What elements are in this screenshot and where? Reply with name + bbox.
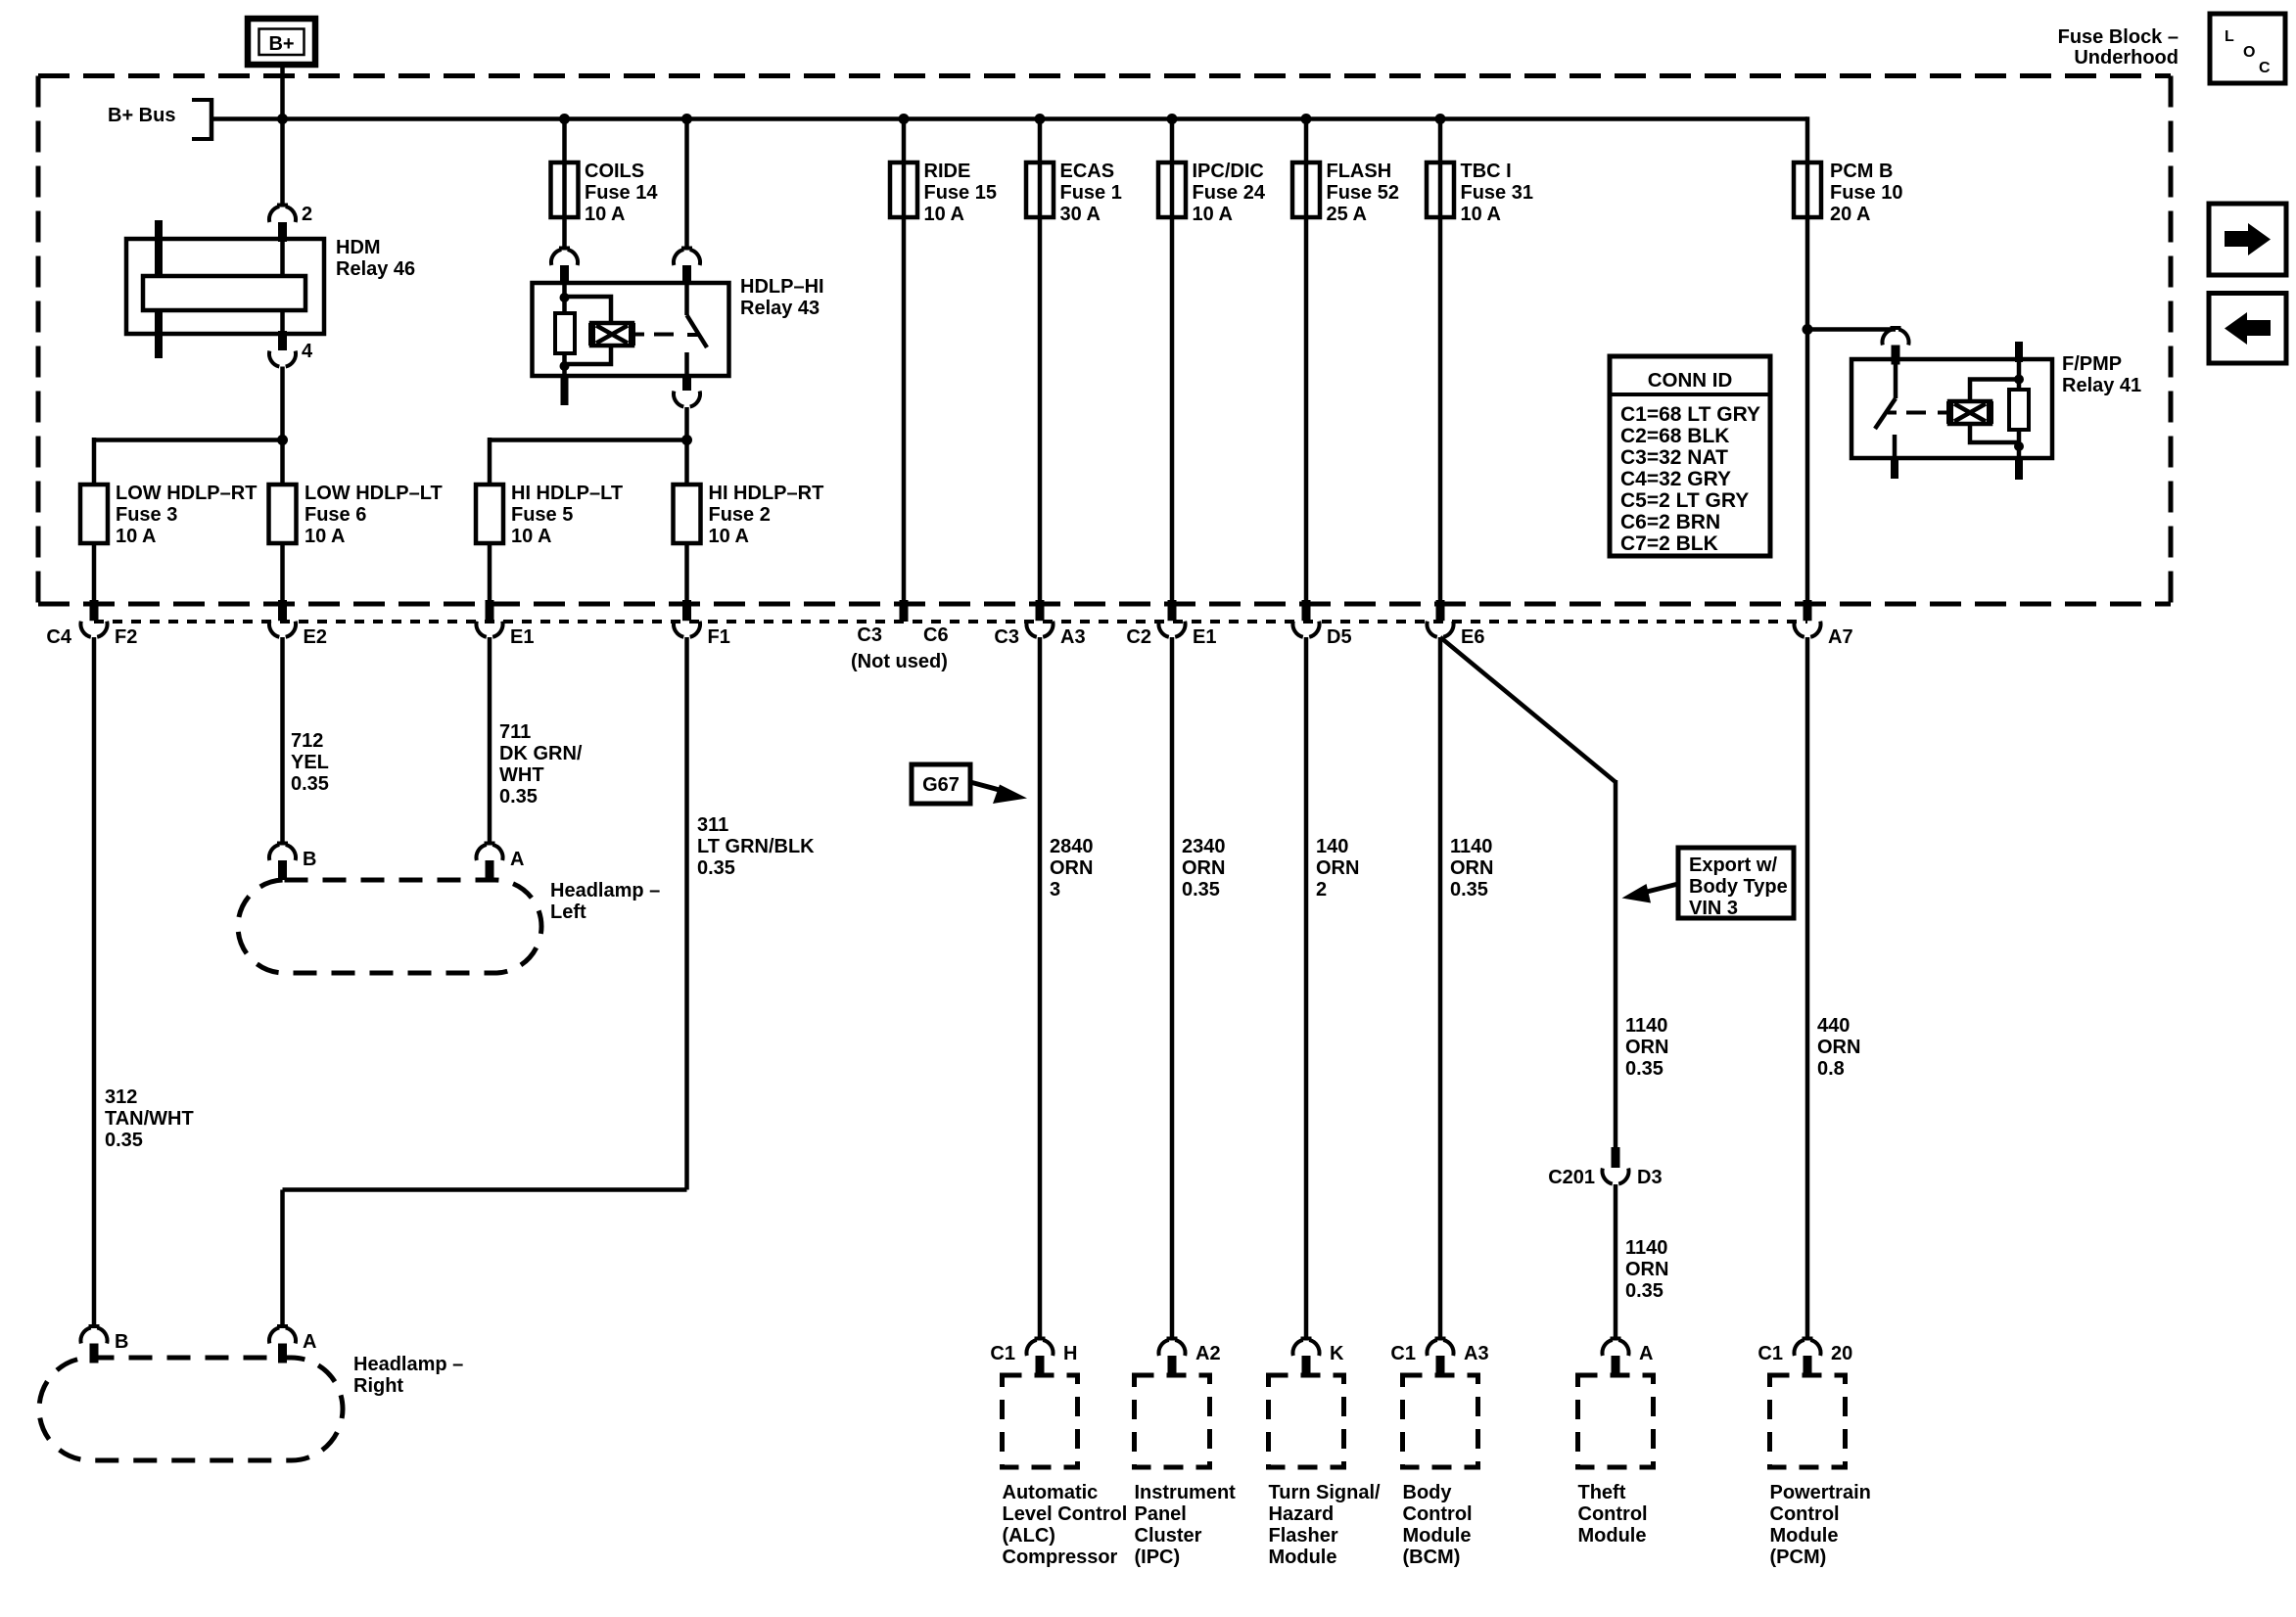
svg-text:0.35: 0.35 <box>1182 879 1220 901</box>
svg-text:Fuse Block –: Fuse Block – <box>2058 26 2179 48</box>
svg-text:711: 711 <box>499 721 531 743</box>
svg-text:ORN: ORN <box>1450 857 1493 879</box>
svg-text:Flasher: Flasher <box>1269 1525 1338 1547</box>
wire fuse 6 to connector E2 <box>280 543 285 603</box>
svg-text:2: 2 <box>1316 879 1327 901</box>
svg-text:B+ Bus: B+ Bus <box>108 105 175 126</box>
svg-text:0.35: 0.35 <box>697 857 735 879</box>
svg-text:0.35: 0.35 <box>291 773 329 795</box>
svg-text:Fuse 1: Fuse 1 <box>1060 182 1122 204</box>
svg-text:Underhood: Underhood <box>2074 47 2179 69</box>
relay 43 coil feed wire <box>562 283 567 315</box>
headlamp left dashed outline <box>238 880 541 973</box>
svg-text:Export w/: Export w/ <box>1689 855 1777 876</box>
svg-text:E6: E6 <box>1461 626 1484 648</box>
svg-text:WHT: WHT <box>499 764 544 786</box>
svg-text:C6: C6 <box>923 624 949 646</box>
fuse F5 HI HDLP-LT <box>476 485 503 543</box>
wire bus through FLASH fuse down to fuse block edge <box>1304 119 1309 604</box>
nav icon left-arrow box <box>2209 294 2286 364</box>
svg-text:YEL: YEL <box>291 752 329 773</box>
svg-text:C6=2 BRN: C6=2 BRN <box>1620 511 1720 533</box>
svg-text:Relay 46: Relay 46 <box>336 258 415 280</box>
connector pin A2 of module <box>1167 1337 1178 1341</box>
svg-text:(ALC): (ALC) <box>1003 1525 1055 1547</box>
svg-text:H: H <box>1063 1343 1077 1364</box>
relay 41 coil-to-switch link <box>1888 411 1897 415</box>
svg-text:C3=32 NAT: C3=32 NAT <box>1620 446 1728 469</box>
wire 1140 below C201 to theft module <box>1614 1184 1618 1337</box>
relay 41 switch blade <box>1875 398 1896 429</box>
svg-text:C7=2 BLK: C7=2 BLK <box>1620 532 1718 555</box>
svg-text:ORN: ORN <box>1050 857 1093 879</box>
svg-text:Body: Body <box>1403 1482 1453 1503</box>
svg-text:0.35: 0.35 <box>1625 1058 1663 1080</box>
svg-text:E2: E2 <box>304 626 327 648</box>
svg-text:DK GRN/: DK GRN/ <box>499 743 583 764</box>
relay 41 resistor bottom wire <box>2017 428 2022 458</box>
wire relay 43 output to high-beam fuses <box>684 407 689 486</box>
svg-text:3: 3 <box>1050 879 1060 901</box>
relay 41 coil winding box <box>1949 401 1991 424</box>
svg-text:PCM B: PCM B <box>1830 161 1893 182</box>
wire 1140 down to C201 <box>1614 780 1618 1149</box>
junction node relay 41 coil top <box>2014 375 2024 385</box>
svg-text:C1: C1 <box>1390 1343 1416 1364</box>
LOC page-location icon box <box>2210 14 2285 83</box>
svg-text:Headlamp –: Headlamp – <box>353 1354 463 1375</box>
svg-text:C2=68 BLK: C2=68 BLK <box>1620 425 1729 447</box>
svg-text:LOW HDLP–RT: LOW HDLP–RT <box>116 483 257 504</box>
module dashed box Powertrain Control Module <box>1770 1375 1846 1467</box>
svg-text:0.35: 0.35 <box>499 786 538 808</box>
wire 440 circuit A7 to PCM <box>1805 637 1810 1337</box>
connector stub C3/C6 not used <box>900 600 909 622</box>
svg-text:20 A: 20 A <box>1830 204 1871 225</box>
G67 ground reference box with arrow <box>912 764 970 804</box>
svg-text:2840: 2840 <box>1050 836 1094 857</box>
module dashed box Body <box>1403 1375 1478 1467</box>
wire 711 circuit fuse5/E1 to headlamp left A <box>488 637 492 845</box>
svg-text:A3: A3 <box>1060 626 1086 648</box>
svg-text:(IPC): (IPC) <box>1135 1547 1181 1568</box>
svg-text:HDLP–HI: HDLP–HI <box>740 276 824 298</box>
Export w/ Body Type VIN 3 box with arrow <box>1678 848 1794 918</box>
svg-text:C1: C1 <box>990 1343 1015 1364</box>
connector pin 20 of PCM <box>1803 1337 1813 1341</box>
F/PMP relay 41 box <box>1851 359 2052 458</box>
svg-text:C4=32 GRY: C4=32 GRY <box>1620 468 1731 490</box>
svg-text:ORN: ORN <box>1182 857 1225 879</box>
svg-text:ORN: ORN <box>1625 1259 1668 1280</box>
svg-text:2340: 2340 <box>1182 836 1226 857</box>
svg-text:Relay 43: Relay 43 <box>740 298 820 319</box>
svg-text:B: B <box>115 1331 128 1353</box>
svg-text:Fuse 5: Fuse 5 <box>511 504 573 526</box>
svg-text:Fuse 52: Fuse 52 <box>1327 182 1399 204</box>
svg-text:10 A: 10 A <box>585 204 626 225</box>
junction node B+ / bus <box>277 114 288 124</box>
svg-text:Module: Module <box>1578 1525 1647 1547</box>
svg-text:C: C <box>2259 60 2271 76</box>
fuse F24 IPC/DIC <box>1158 162 1186 217</box>
svg-text:Relay 41: Relay 41 <box>2062 375 2141 396</box>
svg-text:CONN ID: CONN ID <box>1648 369 1733 392</box>
fuse F1 ECAS <box>1026 162 1054 217</box>
relay 43 coil-to-switch link <box>633 333 644 337</box>
svg-text:10 A: 10 A <box>924 204 965 225</box>
fuse F15 RIDE <box>890 162 917 217</box>
relay 43 resistor <box>555 313 575 353</box>
connector E2 at fuse block edge <box>278 600 287 621</box>
svg-text:O: O <box>2243 44 2255 61</box>
wire 311 horizontal run to headlamp right A <box>283 1187 687 1192</box>
HDM relay 46 outer box <box>126 239 324 334</box>
wire bus to COILS fuse and relay 43 coil <box>562 119 567 251</box>
connector relay 43 switch pin <box>681 247 692 251</box>
svg-text:A7: A7 <box>1828 626 1853 648</box>
svg-text:10 A: 10 A <box>709 526 750 547</box>
relay 43 coil ground stub <box>561 376 569 405</box>
junction node bus / coils fuse <box>559 114 570 124</box>
fuse F14 COILS <box>551 162 579 217</box>
svg-text:2: 2 <box>302 204 312 225</box>
svg-text:Turn Signal/: Turn Signal/ <box>1269 1482 1382 1503</box>
svg-text:Panel: Panel <box>1135 1503 1187 1525</box>
wire branch to F/PMP relay 41 <box>1807 327 1896 332</box>
svg-text:L: L <box>2225 28 2234 45</box>
svg-text:4: 4 <box>302 341 313 362</box>
junction node low-beam feed tee <box>277 435 288 445</box>
svg-text:0.35: 0.35 <box>105 1130 143 1151</box>
connector relay 41 switch pin <box>1891 326 1901 330</box>
svg-text:COILS: COILS <box>585 161 644 182</box>
svg-text:RIDE: RIDE <box>924 161 971 182</box>
module dashed box Theft Control Module <box>1578 1375 1654 1467</box>
svg-text:A: A <box>1639 1343 1653 1364</box>
connector B of headlamp left <box>277 842 288 846</box>
connector E1 at fuse block edge <box>486 600 494 621</box>
wire bus through TBC I fuse down to fuse block edge <box>1438 119 1443 604</box>
svg-text:1140: 1140 <box>1625 1015 1667 1037</box>
svg-text:A: A <box>510 849 524 870</box>
svg-text:G67: G67 <box>922 774 960 796</box>
svg-text:C1=68 LT GRY: C1=68 LT GRY <box>1620 403 1760 426</box>
svg-text:10 A: 10 A <box>116 526 157 547</box>
connector F2 at fuse block edge <box>90 600 99 621</box>
B+ bus bracket symbol <box>192 98 213 102</box>
svg-text:25 A: 25 A <box>1327 204 1368 225</box>
svg-text:Fuse 3: Fuse 3 <box>116 504 177 526</box>
svg-text:30 A: 30 A <box>1060 204 1101 225</box>
svg-text:Right: Right <box>353 1375 403 1397</box>
connector relay 43 coil pin <box>559 247 570 251</box>
wire 312 circuit fuse3 to headlamp right B <box>92 637 97 1327</box>
svg-text:C3: C3 <box>994 626 1019 648</box>
svg-text:Hazard: Hazard <box>1269 1503 1335 1525</box>
B+ battery feed symbol <box>248 19 315 65</box>
svg-text:E1: E1 <box>1193 626 1216 648</box>
wire fuse 2 to connector F1 <box>684 543 689 603</box>
svg-text:D3: D3 <box>1637 1167 1663 1188</box>
wire circuit 140 down to module <box>1304 637 1309 1337</box>
svg-text:Cluster: Cluster <box>1135 1525 1202 1547</box>
wire bus through RIDE fuse down to fuse block edge <box>902 119 907 604</box>
svg-text:Module: Module <box>1770 1525 1839 1547</box>
svg-text:TAN/WHT: TAN/WHT <box>105 1108 194 1130</box>
svg-text:LOW HDLP–LT: LOW HDLP–LT <box>305 483 443 504</box>
svg-text:10 A: 10 A <box>511 526 552 547</box>
svg-text:HI HDLP–RT: HI HDLP–RT <box>709 483 824 504</box>
wire pin2 stub into relay element <box>280 240 285 278</box>
svg-text:HI HDLP–LT: HI HDLP–LT <box>511 483 623 504</box>
svg-text:LT GRN/BLK: LT GRN/BLK <box>697 836 815 857</box>
svg-text:Instrument: Instrument <box>1135 1482 1237 1503</box>
svg-text:Fuse 15: Fuse 15 <box>924 182 997 204</box>
module dashed box Automatic <box>1003 1375 1078 1467</box>
connector relay 43 output pin <box>682 374 691 391</box>
svg-text:Fuse 24: Fuse 24 <box>1193 182 1266 204</box>
connector E6 at fuse block edge <box>1436 600 1445 621</box>
svg-text:ORN: ORN <box>1316 857 1359 879</box>
connector F1 at fuse block edge <box>682 600 691 621</box>
svg-text:E1: E1 <box>510 626 534 648</box>
wire HDM pin4 down to low-beam fuses <box>280 367 285 487</box>
wire B+ bus horizontal <box>213 116 1807 121</box>
svg-text:F1: F1 <box>708 626 730 648</box>
svg-text:C5=2 LT GRY: C5=2 LT GRY <box>1620 489 1749 512</box>
svg-text:Fuse 2: Fuse 2 <box>709 504 771 526</box>
connector pin A of theft control module <box>1611 1337 1621 1341</box>
relay 41 coil parallel loop <box>1970 380 2019 443</box>
svg-text:IPC/DIC: IPC/DIC <box>1193 161 1264 182</box>
svg-text:HDM: HDM <box>336 237 381 258</box>
svg-text:0.35: 0.35 <box>1625 1280 1663 1302</box>
svg-text:Automatic: Automatic <box>1003 1482 1099 1503</box>
fuse block connector face dotted line <box>94 620 1807 624</box>
connector pin 4 of HDM relay <box>278 331 287 350</box>
svg-text:20: 20 <box>1831 1343 1852 1364</box>
svg-text:440: 440 <box>1817 1015 1850 1037</box>
svg-text:A2: A2 <box>1195 1343 1221 1364</box>
svg-text:Powertrain: Powertrain <box>1770 1482 1871 1503</box>
svg-text:K: K <box>1330 1343 1344 1364</box>
connector A of headlamp right <box>277 1324 288 1328</box>
fuse block dashed outline left edge <box>36 76 41 605</box>
svg-text:Compressor: Compressor <box>1003 1547 1118 1568</box>
connector C201 D3 in-line <box>1612 1147 1620 1168</box>
svg-text:Level Control: Level Control <box>1003 1503 1128 1525</box>
fuse block dashed outline bottom edge <box>38 602 2171 607</box>
svg-text:F/PMP: F/PMP <box>2062 353 2122 375</box>
relay 41 switch pin wire <box>1894 360 1898 398</box>
connector A of headlamp left <box>485 842 495 846</box>
fuse F10 PCM B <box>1794 162 1821 217</box>
svg-text:Headlamp –: Headlamp – <box>550 880 660 901</box>
connector pin H of module <box>1035 1337 1046 1341</box>
junction node bus / RIDE fuse <box>899 114 910 124</box>
wire tee to HI HDLP-LT fuse 5 <box>490 438 687 442</box>
fuse F31 TBC I <box>1427 162 1454 217</box>
relay 41 resistor feed stub <box>2015 342 2023 362</box>
svg-text:Fuse 14: Fuse 14 <box>585 182 658 204</box>
wire bus through IPC/DIC fuse down to fuse block edge <box>1170 119 1175 604</box>
fuse F52 FLASH <box>1292 162 1320 217</box>
HDM relay bottom-left pin stub <box>155 308 163 358</box>
svg-text:B: B <box>303 849 316 870</box>
junction node relay 41 coil bottom <box>2014 441 2024 451</box>
headlamp right dashed outline <box>39 1358 343 1460</box>
relay 41 coil ground stub <box>2015 458 2023 480</box>
connector D5 at fuse block edge <box>1302 600 1311 621</box>
svg-text:C3: C3 <box>857 624 882 646</box>
relay 43 coil bottom wire <box>562 351 567 376</box>
connector pin K of module <box>1301 1337 1312 1341</box>
svg-text:10 A: 10 A <box>1461 204 1502 225</box>
junction node relay 43 coil top <box>560 293 570 302</box>
fuse F3 LOW HDLP-RT <box>80 485 108 543</box>
svg-text:(PCM): (PCM) <box>1770 1547 1827 1568</box>
wire bus to relay 43 switch pin <box>684 119 689 251</box>
svg-text:ORN: ORN <box>1817 1037 1860 1058</box>
svg-text:Control: Control <box>1403 1503 1473 1525</box>
svg-text:Fuse 10: Fuse 10 <box>1830 182 1902 204</box>
junction node PCM feed / F-PMP relay branch <box>1803 324 1813 335</box>
svg-text:(Not used): (Not used) <box>851 651 948 672</box>
svg-text:Control: Control <box>1578 1503 1648 1525</box>
junction node high-beam feed tee <box>681 435 692 445</box>
connector pin 2 of HDM relay <box>277 204 288 208</box>
svg-text:C4: C4 <box>46 626 71 648</box>
svg-text:712: 712 <box>291 730 323 752</box>
HDM relay top-left pin stub <box>155 220 163 278</box>
connector A7 at fuse block edge <box>1804 600 1812 621</box>
HDLP-HI relay 43 box <box>533 283 729 376</box>
svg-text:0.35: 0.35 <box>1450 879 1488 901</box>
svg-text:Theft: Theft <box>1578 1482 1626 1503</box>
wire from B+ symbol down through bus <box>280 65 285 206</box>
svg-text:311: 311 <box>697 814 728 836</box>
connector A3 at fuse block edge <box>1036 600 1045 621</box>
svg-text:TBC I: TBC I <box>1461 161 1512 182</box>
wire bus through ECAS fuse down to fuse block edge <box>1038 119 1043 604</box>
wire circuit 2340 down to module <box>1170 637 1175 1337</box>
fuse block dashed outline right edge <box>2169 76 2174 605</box>
wire circuit 2840 down to module <box>1038 637 1043 1337</box>
svg-text:ECAS: ECAS <box>1060 161 1115 182</box>
svg-text:140: 140 <box>1316 836 1348 857</box>
svg-text:10 A: 10 A <box>1193 204 1234 225</box>
svg-text:1140: 1140 <box>1625 1237 1667 1259</box>
svg-text:F2: F2 <box>115 626 137 648</box>
svg-text:ORN: ORN <box>1625 1037 1668 1058</box>
relay 43 coil winding box <box>591 323 633 346</box>
wire tee to LOW HDLP-RT fuse 3 <box>94 438 283 442</box>
fuse F6 LOW HDLP-LT <box>269 485 297 543</box>
svg-text:Fuse 6: Fuse 6 <box>305 504 366 526</box>
junction node bus / relay 43 switch <box>681 114 692 124</box>
svg-text:C1: C1 <box>1757 1343 1783 1364</box>
relay 41 switch contact stub <box>1891 458 1898 479</box>
junction node bus / IPC/DIC fuse <box>1167 114 1178 124</box>
wire bus corner down to PCM B fuse <box>1805 116 1810 603</box>
connector E1 at fuse block edge <box>1168 600 1177 621</box>
connector B of headlamp right <box>89 1324 100 1328</box>
fuse block underhood dashed outline top edge <box>38 73 2171 78</box>
svg-text:Module: Module <box>1403 1525 1472 1547</box>
wire 712 circuit fuse6/E2 to headlamp left B <box>280 637 285 845</box>
wire circuit 1140 down to module <box>1438 637 1443 1337</box>
relay 41 resistor <box>2009 390 2029 430</box>
wire 311 down to headlamp right A <box>280 1190 285 1328</box>
relay 43 coil parallel loop <box>565 297 612 364</box>
relay 43 switch pin wire <box>684 283 689 315</box>
svg-text:1140: 1140 <box>1450 836 1492 857</box>
svg-text:312: 312 <box>105 1086 137 1108</box>
relay 41 resistor top wire <box>2017 359 2022 392</box>
svg-text:Control: Control <box>1770 1503 1840 1525</box>
svg-text:Body Type: Body Type <box>1689 876 1788 898</box>
module dashed box Instrument <box>1135 1375 1210 1467</box>
junction node bus / ECAS fuse <box>1035 114 1046 124</box>
module dashed box Turn Signal/ <box>1269 1375 1344 1467</box>
connector pin A3 of module <box>1435 1337 1446 1341</box>
svg-text:0.8: 0.8 <box>1817 1058 1845 1080</box>
CONN ID table box <box>1610 356 1770 556</box>
svg-text:C2: C2 <box>1126 626 1151 648</box>
svg-text:10 A: 10 A <box>305 526 346 547</box>
svg-text:D5: D5 <box>1327 626 1352 648</box>
relay 43 switch blade <box>687 315 708 347</box>
wire relay element to pin 4 <box>280 308 285 334</box>
nav icon right-arrow box <box>2209 204 2286 275</box>
junction node bus / FLASH fuse <box>1301 114 1312 124</box>
relay 43 switch fixed contact <box>684 352 689 376</box>
svg-text:B+: B+ <box>268 33 294 55</box>
svg-text:VIN 3: VIN 3 <box>1689 898 1738 919</box>
HDM relay 46 inner element box <box>143 276 305 310</box>
svg-text:Fuse 31: Fuse 31 <box>1461 182 1533 204</box>
wire 311 circuit F1 down <box>684 637 689 1190</box>
svg-text:A3: A3 <box>1464 1343 1489 1364</box>
svg-text:A: A <box>303 1331 316 1353</box>
svg-text:FLASH: FLASH <box>1327 161 1392 182</box>
svg-text:(BCM): (BCM) <box>1403 1547 1461 1568</box>
svg-text:C201: C201 <box>1548 1167 1595 1188</box>
svg-text:Left: Left <box>550 901 586 923</box>
relay 41 switch fixed contact <box>1893 435 1898 458</box>
svg-text:Module: Module <box>1269 1547 1337 1568</box>
junction node bus / TBC I fuse <box>1435 114 1446 124</box>
wire fuse 3 to connector C4-F2 <box>92 543 97 603</box>
wire 1140 diagonal from E6 <box>1440 637 1616 782</box>
wire fuse 5 to connector E1 <box>488 543 492 603</box>
fuse F2 HI HDLP-RT <box>674 485 701 543</box>
junction node relay 43 coil bottom <box>560 361 570 371</box>
